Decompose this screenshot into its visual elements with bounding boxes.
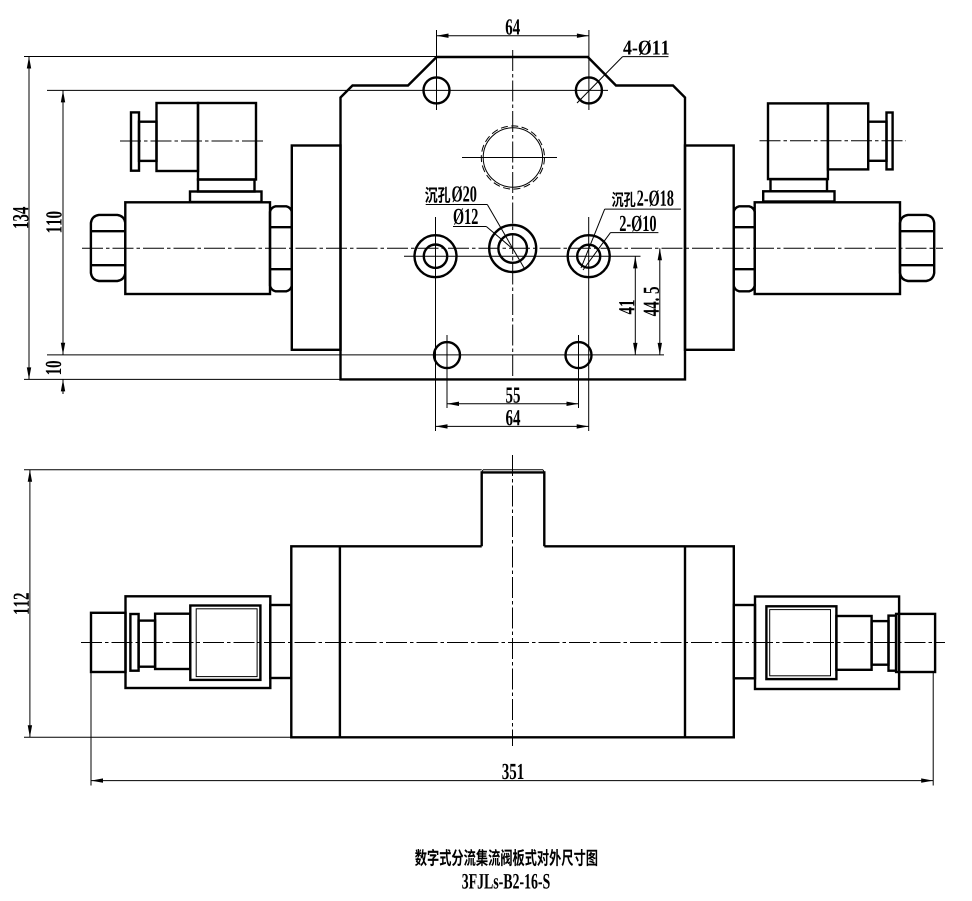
left solenoid: coil block large — [198, 103, 256, 180]
extension line boss top to 112 dim — [24, 469, 482, 471]
title line 2 model number 3FJLs-B2-16-S — [462, 874, 549, 889]
front left connector: step block — [139, 621, 156, 667]
extension line x=447 (55 dim) — [446, 335, 448, 408]
front left connector: thin flange plate — [130, 614, 138, 671]
dimension 44.5: line, arrows, text — [659, 248, 661, 355]
front view: horizontal centerline — [81, 642, 945, 644]
front left connector: end cap — [91, 613, 126, 672]
front view: left plate division line — [339, 546, 341, 737]
dimension 64 (bottom): line, arrows, text — [436, 425, 589, 427]
extension line x=436.5 (top 64 dim) — [436, 30, 438, 110]
front view: vertical centerline through boss — [512, 455, 514, 746]
left solenoid: connector centerline — [120, 140, 265, 142]
front right connector: end cap — [896, 614, 935, 672]
front left connector: inner block outer rect — [190, 606, 260, 680]
right solenoid: valve body — [755, 202, 900, 294]
mounting hole bottom-right (4-Ø11) — [566, 342, 592, 368]
label 2-Ø10 with underline and leader to right hole — [620, 215, 656, 231]
port circle horizontal centerline — [462, 157, 557, 159]
front right connector: inner block outer rect — [766, 606, 836, 679]
centerline through top holes (110 reference) — [47, 89, 608, 91]
vertical centerline of block — [512, 50, 514, 376]
front right connector: housing box — [755, 597, 899, 690]
extension line top plate edge to 134 dim — [24, 56, 437, 58]
extension line block bottom to left dims — [24, 378, 341, 380]
front view: main body outline (open at boss) — [291, 546, 734, 737]
dimension 112: line, arrows, text — [29, 470, 31, 738]
label Ø12 with underline and leader to center hole — [454, 208, 478, 224]
right solenoid: inner hex nut — [734, 206, 755, 291]
left solenoid: coil base plate — [190, 192, 262, 203]
right solenoid: connector stem — [868, 122, 886, 161]
dimension 134: line, arrows, text — [28, 57, 30, 380]
left solenoid: inner hex nut — [270, 206, 292, 291]
front right connector: spacer to body — [734, 605, 755, 678]
left solenoid: connector stem — [139, 122, 157, 161]
right solenoid: coil block large — [768, 103, 828, 179]
right solenoid: coil block small — [828, 103, 868, 169]
front right connector: step block — [872, 621, 889, 665]
label 沉孔Ø20 with underline and leader to center hole — [425, 187, 437, 203]
front right connector: thin flange plate — [889, 616, 897, 671]
right solenoid: outer hex nut — [900, 215, 934, 281]
front right connector: inner block inner rect — [770, 610, 831, 676]
horizontal line through bottom holes (10 reference) — [47, 354, 664, 356]
counterbored hole right (2-Ø18/2-Ø10) — [568, 235, 610, 277]
dimension 64 (top): line, arrows, text — [437, 35, 589, 37]
dimension 110: line, arrows, text — [62, 90, 64, 354]
horizontal line through counterbored holes — [404, 255, 641, 257]
left solenoid: outer hex nut — [91, 215, 125, 281]
right solenoid: coil neck — [771, 179, 828, 191]
dimension 10: outside arrow and text — [62, 379, 64, 394]
front left connector: spacer to body — [270, 605, 291, 678]
right solenoid: connector centerline — [760, 140, 907, 142]
dimension 41: line, arrows, text — [634, 256, 636, 355]
front view: right plate division line — [684, 546, 686, 737]
extension line left end cap to 351 dim — [90, 672, 92, 786]
counterbored hole center (Ø20/Ø12) — [489, 225, 536, 272]
front left connector: inner block inner rect — [196, 609, 257, 677]
extension line x=578.5 (55 dim) — [578, 335, 580, 408]
label 4-Ø11 with underline and leader to top-right hole — [623, 40, 668, 55]
counterbored hole left (2-Ø18/2-Ø10) — [415, 235, 457, 277]
left solenoid: valve body — [125, 202, 270, 294]
left solenoid: connector end flange — [131, 112, 139, 170]
front view: top port boss — [482, 472, 545, 546]
top view: main valve block outline with chamfered corners and raised top plate — [341, 57, 686, 379]
dimension 351: line, arrows, text — [91, 780, 933, 782]
extension/centerline x=588.7 (bottom 64 dim) — [588, 217, 590, 431]
extension line right end cap to 351 dim — [932, 672, 934, 786]
label 沉孔2-Ø18 with underline and leader to right hole — [612, 192, 624, 208]
dimension 55 (bottom): line, arrows, text — [447, 403, 579, 405]
mounting hole top-right (4-Ø11) — [576, 77, 602, 103]
extension line x=588.9 (top 64 dim) — [588, 30, 590, 110]
right solenoid: coil base plate — [763, 191, 834, 201]
main horizontal centerline of top view — [82, 247, 943, 249]
title line 1 (Chinese) — [415, 849, 427, 866]
top view: right side mounting plate — [685, 146, 734, 350]
front left connector: housing box — [126, 596, 271, 688]
extension line body bottom to 112 dim — [24, 736, 291, 738]
large port circle (dashed outer) — [481, 126, 544, 189]
top view: left side mounting plate — [292, 146, 341, 350]
left solenoid: coil neck — [198, 180, 255, 192]
mounting hole bottom-left (4-Ø11) — [434, 342, 460, 368]
mounting hole top-left (4-Ø11) — [424, 77, 450, 103]
left solenoid: coil block small — [157, 103, 199, 171]
front right connector: mid block — [836, 616, 871, 670]
right solenoid: connector end flange — [887, 113, 893, 170]
extension/centerline x=435.5 (bottom 64 dim) — [435, 217, 437, 431]
front left connector: mid block — [155, 614, 190, 669]
large port circle (inner) — [483, 128, 542, 187]
